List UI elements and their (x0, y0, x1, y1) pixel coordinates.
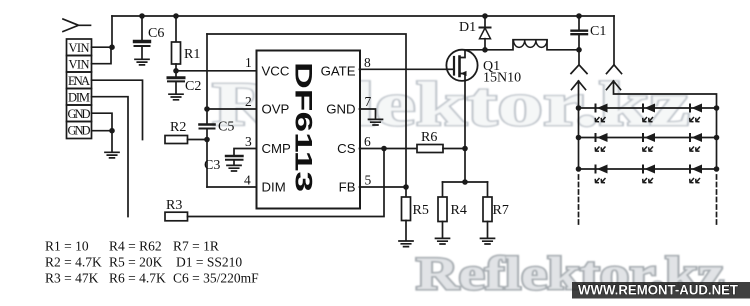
capacitor C2 (168, 71, 184, 94)
wire LED left rail dashed (578, 175, 580, 226)
node D1 top (482, 13, 488, 19)
svg-text:R1: R1 (184, 47, 200, 62)
wire LED row3 (579, 168, 717, 170)
svg-text:C1: C1 (590, 24, 606, 39)
node FB (403, 184, 409, 190)
inductor L1 (485, 40, 579, 50)
node OVP (204, 106, 210, 112)
wire CS (360, 148, 418, 150)
svg-text:OVP: OVP (262, 102, 290, 117)
svg-text:7: 7 (365, 94, 372, 109)
arrow connector in1 (572, 81, 586, 108)
svg-text:6: 6 (364, 134, 371, 149)
wire VIN1 (92, 46, 113, 48)
resistor R6 (417, 145, 465, 153)
svg-text:R6: R6 (421, 130, 437, 145)
node VCC (173, 68, 179, 74)
LED D12 (643, 104, 655, 122)
wire LED row1 (579, 107, 717, 109)
svg-text:3: 3 (245, 134, 252, 149)
capacitor C1 (572, 16, 588, 50)
ground C3 (227, 165, 241, 171)
svg-text:DF6113: DF6113 (290, 62, 317, 192)
op-amp U1 IC DF6113 (257, 51, 361, 209)
svg-text:5: 5 (365, 173, 372, 188)
wire OVP loop top (207, 34, 406, 187)
wire Q1 drain (465, 49, 485, 51)
wire VCC (176, 70, 257, 72)
svg-text:CMP: CMP (262, 141, 292, 156)
LED D23 (690, 133, 702, 151)
wire FB (360, 186, 407, 188)
svg-text:CS: CS (337, 141, 356, 156)
capacitor C3 (226, 156, 243, 165)
wire LED row2 (579, 137, 717, 139)
svg-text:R2: R2 (170, 120, 186, 135)
ground pin7 (369, 119, 383, 125)
LED D22 (643, 133, 655, 151)
capacitor C5 (200, 34, 215, 187)
svg-text:C2: C2 (185, 79, 201, 94)
node row3 left (576, 166, 582, 172)
svg-text:VCC: VCC (262, 63, 290, 78)
wire GND pin7 (360, 109, 376, 119)
svg-text:R7: R7 (493, 203, 509, 218)
resistor R1 (172, 16, 181, 71)
svg-text:R2 = 4.7K: R2 = 4.7K (45, 255, 102, 270)
node row1 right (714, 105, 720, 111)
LED D21 (595, 133, 607, 151)
wire DIM pin (207, 186, 257, 188)
svg-text:GND: GND (326, 102, 355, 117)
wire GND2 (92, 130, 113, 132)
node VIN junction (109, 44, 115, 50)
wire ENA (92, 80, 143, 139)
connector J1 (67, 39, 92, 139)
transistor Q1 (446, 50, 477, 81)
resistor R5 (402, 187, 411, 241)
reference values table (45, 239, 259, 286)
svg-text:1: 1 (245, 55, 252, 70)
resistor R4 (438, 182, 447, 238)
svg-text:C6 = 35/220mF: C6 = 35/220mF (173, 271, 259, 286)
node C1 bottom (576, 47, 582, 53)
svg-text:DIM: DIM (68, 90, 90, 104)
wire CMP (234, 149, 257, 156)
node row3 right (714, 166, 720, 172)
svg-text:15N10: 15N10 (483, 71, 521, 86)
svg-text:FB: FB (339, 180, 356, 195)
svg-text:GND: GND (68, 124, 91, 138)
wire VIN2 (92, 47, 112, 64)
wire LED right rail dashed (716, 175, 718, 226)
node row2 left (576, 135, 582, 141)
svg-text:4: 4 (244, 173, 251, 188)
svg-text:DIM: DIM (262, 180, 286, 195)
wire OVP (207, 108, 257, 110)
svg-text:R5: R5 (413, 203, 429, 218)
Q1 arrow (461, 71, 467, 76)
chevron connector out1 (571, 50, 587, 74)
node R1 top (173, 13, 179, 19)
svg-text:D1: D1 (459, 20, 476, 35)
ground R5 (399, 241, 413, 247)
svg-text:C6: C6 (148, 26, 164, 41)
diode D1 (480, 16, 491, 50)
svg-text:R5 = 20K: R5 = 20K (109, 255, 163, 270)
input chevron connector (63, 19, 91, 32)
wire GATE (360, 68, 447, 70)
wire GND1 (92, 113, 113, 152)
wire DIM input (92, 97, 129, 217)
LED D11 (595, 104, 607, 122)
svg-text:C5: C5 (218, 120, 234, 135)
connector labels (68, 41, 91, 138)
arrow connector in2 (607, 81, 717, 169)
LED D13 (690, 104, 702, 122)
ground R4 (436, 238, 450, 244)
capacitor C6 (135, 16, 150, 59)
ground C6 (135, 59, 149, 65)
svg-text:C3: C3 (204, 158, 220, 173)
svg-text:VIN: VIN (69, 41, 90, 55)
svg-text:R4 = R62: R4 = R62 (109, 239, 162, 254)
svg-text:R3 = 47K: R3 = 47K (45, 271, 99, 286)
chevron connector out2 (607, 65, 622, 74)
svg-text:VIN: VIN (69, 57, 90, 71)
wire top supply rail (112, 15, 614, 17)
node R2-C5 (204, 137, 210, 143)
site banner (572, 282, 750, 299)
watermark middle Reflektor.kz (212, 71, 690, 139)
node row2 right (714, 135, 720, 141)
wire R4 R7 tee (443, 181, 488, 183)
LED D31 (595, 165, 607, 183)
node C6 top (139, 13, 145, 19)
node row1 left (576, 105, 582, 111)
svg-text:GND: GND (68, 107, 91, 121)
node C1 top (576, 13, 582, 19)
svg-text:ENA: ENA (68, 74, 90, 88)
wire VIN drop (111, 16, 113, 47)
wire rail drop right (613, 16, 615, 65)
wire Q1 source down (464, 81, 466, 182)
node CS-Q1 (462, 146, 468, 152)
watermark bottom Reflektor.kz (416, 248, 724, 300)
svg-text:R4: R4 (451, 203, 467, 218)
node R4 R7 tee (462, 179, 468, 185)
svg-text:R1 = 10: R1 = 10 (45, 239, 89, 254)
svg-text:R6 = 4.7K: R6 = 4.7K (109, 271, 166, 286)
LED D32 (643, 165, 655, 183)
svg-text:GATE: GATE (321, 63, 356, 78)
LED D33 (690, 165, 702, 183)
svg-text:R3: R3 (166, 198, 182, 213)
svg-text:R7 = 1R: R7 = 1R (173, 239, 219, 254)
resistor R2 (165, 136, 207, 144)
svg-text:WWW.REMONT-AUD.NET: WWW.REMONT-AUD.NET (578, 283, 739, 298)
svg-text:2: 2 (245, 94, 252, 109)
ground C2 (169, 94, 183, 100)
ground R7 (481, 238, 495, 244)
wire LED left rail (578, 108, 580, 169)
ground connector (105, 152, 119, 158)
node GND junction (109, 128, 115, 134)
node D1 anode (482, 47, 488, 53)
svg-text:8: 8 (364, 55, 371, 70)
node CS-R3 (381, 146, 387, 152)
resistor R7 (483, 182, 492, 238)
svg-text:D1 = SS210: D1 = SS210 (176, 255, 242, 270)
resistor R3 (165, 149, 384, 221)
